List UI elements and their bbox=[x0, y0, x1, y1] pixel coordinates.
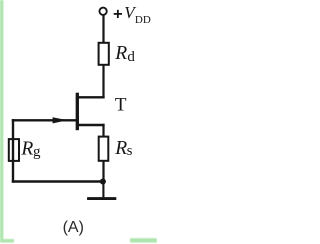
ground bar bbox=[87, 197, 116, 200]
wire: bottom horizontal bbox=[12, 180, 105, 183]
resistor Rg bbox=[9, 139, 19, 161]
wire: source down to Rs bbox=[102, 124, 104, 137]
transistor gate arrow bbox=[53, 117, 68, 123]
transistor T channel bar bbox=[76, 93, 79, 131]
node junction dot bbox=[100, 179, 106, 185]
wire: source horizontal bbox=[77, 124, 105, 126]
wire: left rail bbox=[12, 119, 14, 183]
svg-text:T: T bbox=[115, 95, 127, 116]
svg-text:d: d bbox=[127, 49, 135, 65]
terminal +VDD bbox=[99, 8, 106, 15]
wire: drain horizontal bbox=[77, 96, 105, 98]
wire: supply stem from terminal to Rd bbox=[102, 15, 104, 42]
resistor Rd bbox=[99, 43, 109, 65]
resistor Rs bbox=[99, 137, 109, 161]
svg-text:R: R bbox=[20, 138, 33, 159]
svg-text:R: R bbox=[114, 43, 127, 64]
svg-text:DD: DD bbox=[135, 14, 151, 26]
green border fragment left bbox=[0, 0, 3, 243]
wire: Rd to drain corner bbox=[102, 66, 104, 99]
svg-text:s: s bbox=[127, 143, 133, 159]
wire: Rs to bottom node bbox=[102, 161, 104, 182]
green border fragment bottom-right bbox=[130, 238, 157, 242]
ground stem bbox=[102, 182, 104, 198]
svg-text:(A): (A) bbox=[63, 219, 84, 236]
label +VDD plus sign bbox=[114, 10, 122, 18]
green border fragment bottom-left bbox=[0, 239, 14, 243]
wire: gate horizontal bbox=[12, 119, 77, 121]
svg-text:g: g bbox=[33, 144, 41, 160]
svg-text:R: R bbox=[114, 138, 127, 159]
